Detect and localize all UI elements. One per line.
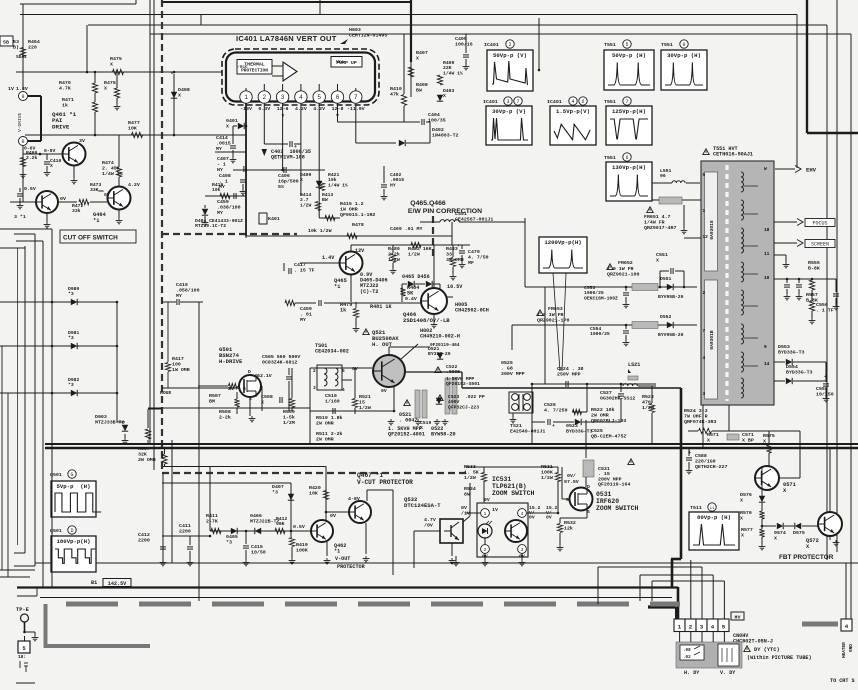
svg-text:R481 1K: R481 1K bbox=[370, 304, 392, 310]
svg-text:HV: HV bbox=[735, 615, 741, 621]
svg-text:IC531: IC531 bbox=[492, 476, 511, 483]
svg-text:1k: 1k bbox=[340, 308, 346, 314]
svg-text:E/W PIN CORRECTION: E/W PIN CORRECTION bbox=[408, 208, 482, 215]
svg-text:.0095: .0095 bbox=[446, 369, 460, 375]
svg-text:2.7: 2.7 bbox=[300, 197, 309, 203]
wire stub bbox=[200, 15, 202, 26]
svg-text:96: 96 bbox=[660, 173, 666, 179]
svg-text:R416: R416 bbox=[212, 182, 223, 188]
svg-text:FR653: FR653 bbox=[548, 306, 563, 312]
R967 bbox=[148, 408, 162, 410]
wire bbox=[524, 218, 526, 287]
svg-text:C410: C410 bbox=[50, 158, 61, 164]
svg-text:0-5V: 0-5V bbox=[44, 148, 55, 154]
svg-text:200V MPP: 200V MPP bbox=[501, 371, 525, 377]
DY connector block bbox=[676, 642, 742, 668]
svg-text:180Vp-p(H): 180Vp-p(H) bbox=[57, 538, 91, 545]
svg-text:R534: R534 bbox=[464, 486, 476, 492]
svg-text:2W OMR: 2W OMR bbox=[316, 436, 334, 442]
svg-text:7W UHF R: 7W UHF R bbox=[684, 413, 708, 419]
svg-text:0574: 0574 bbox=[774, 530, 786, 536]
svg-text:2: 2 bbox=[689, 624, 693, 631]
MOSFET Q531 bbox=[570, 488, 593, 511]
svg-text:R414: R414 bbox=[300, 192, 311, 198]
thick top bus bbox=[410, 0, 412, 62]
svg-text:1.5Vp-p(V): 1.5Vp-p(V) bbox=[556, 108, 590, 115]
svg-text:X: X bbox=[420, 425, 423, 431]
svg-text:R470: R470 bbox=[59, 80, 71, 86]
svg-text:V-DRIVE: V-DRIVE bbox=[17, 112, 23, 132]
waveform T551 pin9 bbox=[661, 50, 707, 90]
svg-text:11: 11 bbox=[710, 507, 715, 511]
svg-text:14: 14 bbox=[764, 361, 770, 367]
svg-text:10/250: 10/250 bbox=[816, 391, 834, 397]
D574 D575 bbox=[777, 523, 783, 529]
svg-text:2W OMR: 2W OMR bbox=[591, 412, 609, 418]
dashed section divider vertical bbox=[161, 0, 163, 473]
IC401 inner outline bbox=[226, 53, 375, 102]
svg-text:X: X bbox=[50, 163, 53, 169]
svg-text:0.5V: 0.5V bbox=[24, 186, 36, 192]
wire row y72 bbox=[16, 71, 222, 73]
svg-text:*3: *3 bbox=[68, 291, 74, 297]
svg-text:BW: BW bbox=[322, 197, 328, 203]
svg-text:2200: 2200 bbox=[179, 528, 191, 534]
svg-text:30Vp-p (H): 30Vp-p (H) bbox=[667, 52, 701, 59]
svg-text:Q465.Q466: Q465.Q466 bbox=[410, 200, 446, 207]
svg-text:E42549-001J1: E42549-001J1 bbox=[510, 428, 545, 434]
svg-text:2: 2 bbox=[508, 42, 511, 48]
svg-text:4: 4 bbox=[571, 99, 574, 105]
waveform pointer stem bbox=[553, 273, 566, 371]
svg-text:5: 5 bbox=[342, 368, 345, 374]
svg-text:C524 . 38: C524 . 38 bbox=[557, 366, 584, 372]
capacitor C403 bbox=[290, 141, 292, 147]
svg-text:C410: C410 bbox=[176, 282, 188, 288]
svg-text:X: X bbox=[763, 438, 766, 444]
svg-text:10K: 10K bbox=[309, 490, 318, 496]
wire to Q531 drain bbox=[585, 420, 587, 458]
svg-text:OEKC16M-100Z: OEKC16M-100Z bbox=[584, 295, 618, 301]
svg-text:. 01: . 01 bbox=[300, 311, 312, 317]
svg-text:1/2W: 1/2W bbox=[541, 475, 553, 481]
svg-text:BYD33G-T3: BYD33G-T3 bbox=[566, 428, 593, 434]
svg-text:. 15: . 15 bbox=[598, 471, 610, 477]
svg-text:0.5V: 0.5V bbox=[293, 524, 305, 530]
svg-text:X: X bbox=[740, 497, 743, 503]
svg-text:1: 1 bbox=[703, 208, 706, 214]
svg-text:IC401 LA7846N VERT OUT: IC401 LA7846N VERT OUT bbox=[236, 34, 337, 43]
capacitor C407 bbox=[244, 166, 246, 172]
svg-text:R473: R473 bbox=[90, 182, 101, 188]
svg-text:QRZ9021-1P0: QRZ9021-1P0 bbox=[537, 317, 569, 323]
svg-text:BYD33G-T3: BYD33G-T3 bbox=[778, 349, 805, 355]
transistor Q461 bbox=[63, 143, 86, 166]
svg-text:1: 1 bbox=[678, 624, 682, 631]
svg-text:T551: T551 bbox=[604, 99, 616, 105]
transistor Q467 bbox=[349, 501, 371, 523]
svg-text:FBT PROTECTOR: FBT PROTECTOR bbox=[779, 554, 834, 561]
svg-text:D982: D982 bbox=[68, 377, 79, 383]
svg-text:QRF074K-3R3: QRF074K-3R3 bbox=[684, 419, 716, 425]
svg-text:10.5V: 10.5V bbox=[447, 284, 463, 290]
svg-text:C508: C508 bbox=[261, 394, 273, 400]
svg-text:.0015: .0015 bbox=[390, 177, 404, 183]
svg-text:R464: R464 bbox=[28, 39, 40, 45]
svg-text:+: + bbox=[294, 145, 297, 150]
wire bbox=[86, 25, 88, 72]
svg-text:1. 5K: 1. 5K bbox=[464, 469, 479, 475]
svg-text:R478: R478 bbox=[352, 222, 364, 228]
fusible resistor FR651 bbox=[659, 197, 682, 204]
svg-text:5B: 5B bbox=[3, 40, 9, 46]
svg-text:*3: *3 bbox=[68, 335, 74, 341]
svg-text:142.5V: 142.5V bbox=[108, 581, 127, 587]
svg-text:8W: 8W bbox=[464, 491, 470, 497]
svg-text:MY: MY bbox=[216, 146, 222, 152]
svg-text:100/16: 100/16 bbox=[455, 41, 473, 47]
svg-text:R419: R419 bbox=[296, 542, 308, 548]
svg-text:HY: HY bbox=[390, 182, 396, 188]
waveform IC401 pins3,7 bbox=[486, 106, 532, 145]
svg-text:C553: C553 bbox=[584, 285, 595, 291]
svg-text:0V: 0V bbox=[381, 388, 387, 394]
svg-text:G: G bbox=[243, 386, 246, 392]
transistor Q464 bbox=[108, 187, 131, 210]
svg-text:0V: 0V bbox=[546, 515, 552, 521]
svg-text:R411: R411 bbox=[206, 513, 218, 519]
left diode ladder D980 D981 D982 bbox=[42, 241, 44, 587]
svg-text:R474: R474 bbox=[102, 160, 114, 166]
svg-text:HY: HY bbox=[217, 167, 223, 173]
svg-text:*3: *3 bbox=[68, 382, 74, 388]
svg-text:0405: 0405 bbox=[226, 534, 238, 540]
svg-text:X: X bbox=[104, 85, 107, 91]
right frame wires bbox=[796, 15, 798, 169]
svg-text:97.5V: 97.5V bbox=[564, 479, 579, 485]
svg-text:C469 .01 MY: C469 .01 MY bbox=[390, 226, 422, 232]
wire bbox=[232, 126, 234, 144]
svg-text:QF20152-S501: QF20152-S501 bbox=[446, 381, 480, 387]
svg-text:12k: 12k bbox=[564, 525, 573, 531]
svg-text:*1: *1 bbox=[93, 218, 99, 224]
wire y325 bbox=[512, 324, 697, 326]
svg-text:4: 4 bbox=[711, 624, 715, 631]
svg-text:R522 10k: R522 10k bbox=[591, 407, 615, 413]
svg-text:G: G bbox=[566, 497, 569, 503]
connector pin 8 bbox=[19, 137, 28, 146]
svg-text:C527: C527 bbox=[600, 390, 612, 396]
svg-text:R410: R410 bbox=[390, 86, 402, 92]
svg-text:1W OHR: 1W OHR bbox=[340, 206, 358, 212]
svg-text:X: X bbox=[416, 55, 419, 61]
svg-text:V. DY: V. DY bbox=[720, 670, 736, 676]
HV tag box bbox=[731, 612, 744, 620]
top border wires bbox=[20, 3, 136, 5]
H.OUT collector wire bbox=[405, 371, 462, 373]
svg-text:1/2W: 1/2W bbox=[300, 202, 311, 208]
svg-text:6: 6 bbox=[581, 99, 584, 105]
left edge vertical bbox=[22, 4, 24, 90]
svg-text:4: 4 bbox=[703, 355, 706, 361]
svg-text:D552: D552 bbox=[660, 314, 671, 320]
svg-text:1N4003-T2: 1N4003-T2 bbox=[432, 132, 459, 138]
svg-text:C551: C551 bbox=[656, 252, 668, 258]
film capacitor C521 bbox=[415, 390, 420, 418]
right column R555 etc bbox=[774, 278, 836, 280]
svg-text:1V: 1V bbox=[492, 507, 498, 513]
svg-text:HOUE: HOUE bbox=[160, 390, 171, 396]
waveform T551 pin6 bbox=[606, 162, 652, 201]
EHV output bbox=[775, 168, 795, 170]
svg-text:BYW58-20: BYW58-20 bbox=[431, 432, 456, 438]
svg-text:2SD1408/OY/-LB: 2SD1408/OY/-LB bbox=[403, 317, 450, 324]
svg-text:D575: D575 bbox=[793, 530, 805, 536]
svg-text:16p/500: 16p/500 bbox=[278, 178, 299, 184]
svg-text:9: 9 bbox=[21, 94, 24, 100]
waveform Q501 drain bbox=[51, 536, 96, 572]
svg-text:100K: 100K bbox=[541, 469, 553, 475]
svg-text:Q467 *1: Q467 *1 bbox=[357, 472, 383, 479]
op-amp U1 bbox=[283, 62, 297, 81]
gray bus segment right bbox=[802, 622, 838, 627]
svg-text:X BP: X BP bbox=[742, 437, 754, 443]
svg-text:11: 11 bbox=[764, 251, 770, 257]
diode D402 bbox=[399, 140, 405, 146]
svg-text:D980: D980 bbox=[68, 286, 79, 292]
svg-text:CETH016-90AJ1: CETH016-90AJ1 bbox=[713, 152, 753, 158]
svg-text:C470: C470 bbox=[468, 249, 480, 255]
C415 bbox=[245, 531, 247, 544]
film capacitor C523b bbox=[452, 378, 457, 414]
svg-text:BYV95B-20: BYV95B-20 bbox=[658, 294, 684, 300]
svg-text:R571: R571 bbox=[707, 432, 719, 438]
svg-text:0531: 0531 bbox=[596, 491, 612, 498]
svg-text:T511: T511 bbox=[690, 505, 702, 511]
svg-text:TO CRT S: TO CRT S bbox=[830, 678, 855, 684]
svg-text:MTZJ9.1C-T2: MTZJ9.1C-T2 bbox=[195, 223, 226, 229]
svg-text:LS21: LS21 bbox=[628, 362, 640, 368]
svg-text:400V: 400V bbox=[448, 399, 459, 405]
svg-text:0466: 0466 bbox=[250, 513, 262, 519]
svg-text:ZOOM SWITCH: ZOOM SWITCH bbox=[596, 505, 638, 512]
resistor R472 bbox=[79, 199, 89, 204]
svg-text:0V: 0V bbox=[529, 515, 535, 521]
svg-text:- 1: - 1 bbox=[217, 161, 226, 167]
svg-text:5Vp-p (H): 5Vp-p (H) bbox=[57, 483, 91, 490]
svg-text:C404: C404 bbox=[428, 112, 440, 118]
svg-text:1/4W FR: 1/4W FR bbox=[644, 219, 665, 225]
svg-text:MY: MY bbox=[176, 293, 182, 299]
svg-text:HEATER: HEATER bbox=[842, 642, 847, 658]
svg-text:15: 15 bbox=[359, 399, 365, 405]
svg-text:C522: C522 bbox=[446, 364, 457, 370]
svg-text:D: D bbox=[70, 528, 73, 534]
svg-text:50Vp-p (V): 50Vp-p (V) bbox=[493, 52, 527, 59]
svg-text:0525: 0525 bbox=[501, 360, 513, 366]
svg-text:R415 1.2: R415 1.2 bbox=[340, 201, 364, 207]
transformer T521 bbox=[509, 392, 533, 413]
CNHV pin 2 bbox=[685, 619, 696, 632]
svg-text:0V: 0V bbox=[461, 505, 467, 511]
svg-text:R531: R531 bbox=[541, 464, 553, 470]
svg-text:R521: R521 bbox=[359, 394, 371, 400]
svg-text:QF20119-164: QF20119-164 bbox=[598, 482, 630, 488]
svg-text:QFP32CJ-223: QFP32CJ-223 bbox=[448, 404, 479, 410]
svg-text:D553: D553 bbox=[778, 344, 790, 350]
svg-text:QF001S.1-1R2: QF001S.1-1R2 bbox=[340, 212, 375, 218]
svg-text:. 1 TF: . 1 TF bbox=[816, 307, 834, 313]
svg-text:R471: R471 bbox=[62, 97, 74, 103]
svg-text:X: X bbox=[656, 257, 659, 263]
transistor Q466 bbox=[421, 288, 447, 314]
wire row y466 bbox=[163, 466, 326, 468]
CNHV pin 4 bbox=[707, 619, 718, 632]
svg-text:R480: R480 bbox=[388, 246, 400, 252]
svg-text:R476: R476 bbox=[104, 80, 116, 86]
svg-text:18:: 18: bbox=[18, 654, 26, 660]
film capacitor C531 bbox=[583, 460, 594, 477]
C521 labels bbox=[404, 400, 410, 406]
transistor Q572 bbox=[818, 512, 842, 536]
svg-text:0V: 0V bbox=[104, 192, 110, 198]
thermal protection box bbox=[237, 60, 272, 75]
svg-text:0523: 0523 bbox=[566, 423, 578, 429]
svg-text:*3: *3 bbox=[272, 489, 278, 495]
CNHV pin 5 bbox=[718, 619, 729, 632]
svg-text:D409: D409 bbox=[300, 172, 311, 178]
svg-text:2W OMR: 2W OMR bbox=[316, 420, 334, 426]
waveform T511 pin11 bbox=[689, 512, 739, 550]
resistor R567 bbox=[162, 454, 167, 464]
row y384 bbox=[532, 383, 656, 385]
svg-text:1/160: 1/160 bbox=[325, 398, 340, 404]
ladder right wire bbox=[116, 302, 118, 422]
svg-text:200V MPP: 200V MPP bbox=[598, 476, 622, 482]
svg-text:B1: B1 bbox=[91, 580, 97, 586]
svg-text:R477: R477 bbox=[128, 120, 140, 126]
svg-text:K401: K401 bbox=[268, 216, 280, 222]
IC401 pins 1-7 bbox=[240, 91, 252, 103]
svg-text:EHV: EHV bbox=[806, 167, 817, 174]
wire to focus/screen bbox=[774, 221, 797, 223]
svg-text:C459: C459 bbox=[300, 306, 312, 312]
svg-text:1-5k: 1-5k bbox=[283, 414, 295, 420]
thick vertical bus bbox=[680, 388, 683, 559]
svg-text:5: 5 bbox=[703, 172, 706, 178]
cut off switch box bbox=[60, 230, 136, 243]
svg-text:V-OUT: V-OUT bbox=[335, 556, 350, 562]
svg-text:IC401: IC401 bbox=[484, 42, 499, 48]
waveform T551 pin7 bbox=[606, 106, 652, 145]
svg-text:8: 8 bbox=[21, 139, 24, 145]
flyback transformer T551 gray block bbox=[701, 161, 774, 405]
svg-text:D551: D551 bbox=[660, 276, 671, 282]
svg-text:TLP621(B): TLP621(B) bbox=[492, 483, 527, 490]
svg-text:IRF620: IRF620 bbox=[596, 498, 619, 505]
svg-text:C405: C405 bbox=[455, 36, 467, 42]
capacitor bbox=[784, 285, 790, 287]
svg-text:10/50: 10/50 bbox=[251, 549, 266, 555]
C522 C523 labels bbox=[435, 367, 441, 373]
svg-text:.0015: .0015 bbox=[216, 140, 231, 146]
svg-text:QETH2CH-227: QETH2CH-227 bbox=[695, 464, 727, 470]
svg-text:SCREEN: SCREEN bbox=[811, 242, 829, 248]
svg-text:10k: 10k bbox=[328, 177, 337, 183]
svg-text:CH49210-002-H: CH49210-002-H bbox=[420, 334, 460, 340]
svg-text:1000/25: 1000/25 bbox=[584, 290, 604, 296]
svg-text:2: 2 bbox=[703, 290, 706, 296]
svg-text:4: 4 bbox=[845, 623, 849, 630]
IC401 outer dashed outline bbox=[222, 49, 379, 105]
svg-text:C526: C526 bbox=[544, 402, 556, 408]
svg-text:C505 560 500V: C505 560 500V bbox=[262, 354, 300, 360]
FR652 bbox=[607, 264, 613, 270]
svg-text:/0V: /0V bbox=[424, 522, 433, 528]
svg-text:C417: C417 bbox=[294, 262, 306, 268]
svg-text:+: + bbox=[457, 244, 460, 249]
B+ bus line upper bbox=[45, 443, 858, 445]
svg-text:2: 2 bbox=[484, 547, 487, 553]
svg-text:0.4V: 0.4V bbox=[405, 296, 417, 302]
svg-text:R576: R576 bbox=[740, 510, 752, 516]
svg-text:C411: C411 bbox=[179, 523, 191, 529]
svg-text:0V: 0V bbox=[60, 196, 66, 202]
wire row y135 bbox=[25, 134, 246, 136]
svg-text:*1: *1 bbox=[334, 548, 340, 554]
svg-text:.02: .02 bbox=[683, 655, 691, 660]
svg-text:H603: H603 bbox=[349, 27, 361, 33]
svg-text:2200: 2200 bbox=[138, 537, 150, 543]
svg-text:CUT OFF SWITCH: CUT OFF SWITCH bbox=[63, 235, 118, 242]
K401 bbox=[259, 213, 267, 224]
C410b bbox=[44, 162, 50, 164]
svg-text:(C)-T2: (C)-T2 bbox=[360, 289, 378, 295]
svg-text:1200Vp-p(H): 1200Vp-p(H) bbox=[544, 239, 581, 246]
wire row bbox=[233, 169, 325, 171]
gray bus corner bbox=[44, 604, 48, 644]
svg-text:4: 4 bbox=[342, 387, 345, 393]
pin wires bbox=[245, 103, 247, 236]
svg-text:C588: C588 bbox=[695, 453, 707, 459]
svg-text:Vcc: Vcc bbox=[336, 59, 344, 65]
svg-text:QB-C2EM-475Z: QB-C2EM-475Z bbox=[591, 433, 626, 439]
svg-text:SDA1: SDA1 bbox=[16, 54, 27, 60]
svg-text:220: 220 bbox=[28, 44, 37, 50]
svg-text:IC401: IC401 bbox=[483, 99, 498, 105]
waveform IC401 pin2 bbox=[487, 50, 533, 91]
svg-text:18: 18 bbox=[764, 227, 770, 233]
CNHV pin 1 bbox=[674, 619, 685, 632]
svg-text:0A9301B: 0A9301B bbox=[709, 330, 715, 350]
svg-text:C408: C408 bbox=[219, 173, 231, 179]
svg-text:1/2W: 1/2W bbox=[464, 475, 476, 481]
gray dashed power bus bbox=[66, 602, 680, 607]
ladder wire 3 bbox=[52, 392, 117, 394]
wire bbox=[531, 384, 533, 444]
svg-text:4.7K: 4.7K bbox=[59, 85, 71, 91]
svg-text:D402: D402 bbox=[432, 127, 444, 133]
thick horizontal to pin1 bbox=[17, 586, 678, 588]
svg-text:DRIVE: DRIVE bbox=[52, 123, 70, 130]
svg-text:DTC124ESA-T: DTC124ESA-T bbox=[404, 502, 441, 509]
svg-text:QRZ9021-100: QRZ9021-100 bbox=[607, 271, 639, 277]
svg-text:R408: R408 bbox=[416, 82, 428, 88]
svg-text:R555: R555 bbox=[808, 260, 820, 266]
pump up box bbox=[331, 57, 362, 68]
svg-text:. G8: . G8 bbox=[501, 365, 513, 371]
svg-text:3: 3 bbox=[313, 385, 316, 391]
